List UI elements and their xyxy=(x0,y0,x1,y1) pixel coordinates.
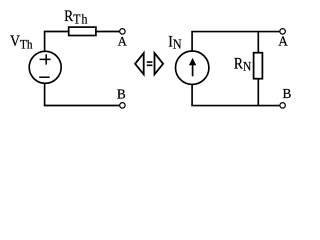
svg-text:A: A xyxy=(118,35,128,49)
equivalence symbol: right triangle xyxy=(155,53,164,74)
equivalence symbol: equals sign xyxy=(147,62,153,65)
resistor R_Th xyxy=(69,27,96,35)
label R_Th xyxy=(64,8,88,26)
voltage source V_Th xyxy=(29,51,61,83)
label R_N xyxy=(234,56,252,74)
wire: right circuit left vertical (top) xyxy=(191,32,193,52)
svg-text:RTh: RTh xyxy=(64,8,88,26)
svg-text:A: A xyxy=(278,34,288,49)
equivalence symbol: left triangle xyxy=(135,53,144,74)
terminal A (left circuit) xyxy=(120,29,126,35)
wire: left circuit left vertical (bottom) xyxy=(44,83,46,105)
arrow of current source xyxy=(189,58,196,76)
svg-text:B: B xyxy=(117,86,126,101)
wire: left circuit left vertical (top) xyxy=(44,32,46,52)
wire: right circuit top horizontal xyxy=(191,31,280,33)
svg-text:RN: RN xyxy=(234,56,252,74)
terminal B (right circuit) xyxy=(280,103,286,109)
terminal B (left circuit) xyxy=(120,103,126,109)
terminal A (right circuit) xyxy=(280,29,286,35)
plus sign of source xyxy=(40,54,51,64)
current source I_N xyxy=(176,51,209,84)
resistor R_N xyxy=(254,53,263,79)
wire: resistor branch vertical (bottom) xyxy=(257,79,259,106)
wire: right circuit left vertical (bottom) xyxy=(191,84,193,106)
svg-text:IN: IN xyxy=(168,34,182,52)
minus sign of source xyxy=(39,76,50,78)
label I_N xyxy=(168,34,182,52)
wire: right circuit bottom horizontal xyxy=(191,105,280,107)
wire: resistor branch vertical (top) xyxy=(257,32,259,53)
label V_Th xyxy=(10,33,33,51)
wire: left circuit bottom horizontal to terminal B xyxy=(44,105,120,107)
svg-text:B: B xyxy=(283,86,292,101)
wire: left circuit top horizontal, corner to resistor xyxy=(44,31,69,33)
wire: left circuit top horizontal, resistor to terminal A xyxy=(96,31,120,33)
svg-text:VTh: VTh xyxy=(10,33,33,51)
